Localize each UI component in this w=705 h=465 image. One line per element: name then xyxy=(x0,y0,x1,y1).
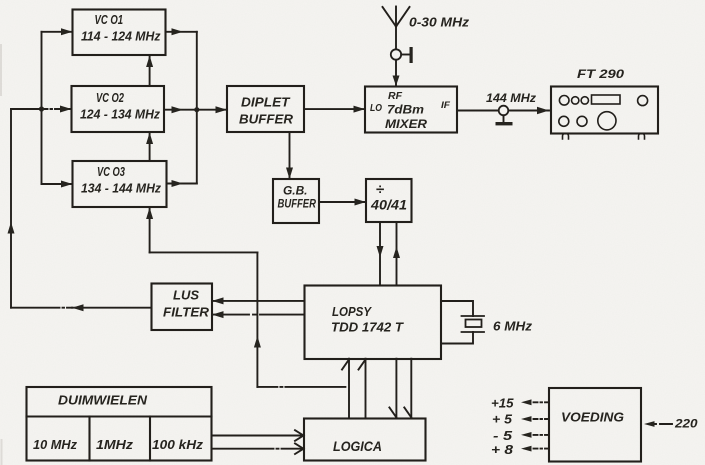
transceiver FT290 feet xyxy=(563,134,645,140)
wire LUS FILTER output to VCO bus xyxy=(11,304,152,311)
buffer DIPLET BUFFER label xyxy=(239,95,294,127)
wire G.B. BUFFER to divider xyxy=(319,199,366,206)
wire DIPLET BUFFER to G.B. BUFFER xyxy=(286,132,293,179)
wire antenna to mixer xyxy=(393,27,400,87)
wire VCO3 input xyxy=(42,181,73,188)
transceiver FT290 title xyxy=(577,67,624,81)
oscillator VCO3 box xyxy=(73,161,167,207)
antenna xyxy=(383,7,410,27)
svg-text:BUFFER: BUFFER xyxy=(239,112,294,127)
power -5 label xyxy=(493,429,513,443)
mixer U1 labels RF LO 7dBm IF MIXER xyxy=(370,91,450,131)
svg-text:÷: ÷ xyxy=(376,181,385,198)
crystal X1 wiring xyxy=(441,301,473,344)
wire DUIMWIELEN to LOGICA upper xyxy=(212,430,304,441)
power +5 output xyxy=(521,416,549,422)
wire VCO1 input xyxy=(42,28,73,35)
svg-text:FT 290: FT 290 xyxy=(577,67,624,81)
power +15 label xyxy=(491,397,515,411)
wire mixer IF to FT290 xyxy=(457,107,549,114)
power supply VOEDING box xyxy=(549,388,641,462)
svg-text:134 - 144 MHz: 134 - 144 MHz xyxy=(81,181,161,196)
svg-text:RF: RF xyxy=(388,91,403,102)
wire VCO1 output xyxy=(166,28,197,35)
svg-text:VC O3: VC O3 xyxy=(97,165,125,179)
power +8 label xyxy=(491,443,513,457)
power +15 output xyxy=(521,399,549,405)
svg-text:G.B.: G.B. xyxy=(283,184,308,198)
svg-text:10 MHz: 10 MHz xyxy=(33,437,77,452)
svg-text:6 MHz: 6 MHz xyxy=(493,320,533,334)
wire VCO3 output xyxy=(167,180,197,187)
antenna label 0-30 MHz xyxy=(409,15,470,30)
thumbwheel DUIMWIELEN labels xyxy=(33,393,204,453)
svg-text:MIXER: MIXER xyxy=(385,119,428,131)
power supply VOEDING label xyxy=(561,410,624,425)
wire band select VCO3 to VCO2 xyxy=(146,133,153,162)
scan edge artifact left xyxy=(0,45,3,464)
logic LOGICA box xyxy=(304,419,426,461)
oscillator VCO2 label xyxy=(80,91,160,122)
connector J2 test point on IF wire xyxy=(496,106,513,126)
divider 40/41 label xyxy=(370,181,407,213)
oscillator VCO3 label xyxy=(81,165,161,196)
node junction at control bus xyxy=(39,106,44,111)
svg-text:VC O1: VC O1 xyxy=(95,13,124,27)
filter LUS FILTER label xyxy=(163,289,209,320)
svg-text:VC O2: VC O2 xyxy=(96,91,124,105)
logic LOGICA label xyxy=(333,439,382,454)
buffer G.B. BUFFER label xyxy=(278,184,317,211)
transceiver FT290 box xyxy=(551,87,658,134)
wire band select into VCO3 xyxy=(146,208,153,253)
oscillator VCO2 box xyxy=(72,86,165,132)
connector J1 on antenna wire xyxy=(391,47,413,63)
power +5 label xyxy=(492,413,513,427)
oscillator VCO1 box xyxy=(73,10,166,56)
wire band select riser from LOGICA xyxy=(254,252,261,387)
thumbwheel DUIMWIELEN box xyxy=(27,387,212,461)
svg-text:100 kHz: 100 kHz xyxy=(152,437,204,452)
mixer U1 box xyxy=(365,87,457,133)
svg-text:- 5: - 5 xyxy=(493,429,513,443)
wire band select from LOGICA line dash-dot xyxy=(257,386,349,388)
buffer G.B. BUFFER box xyxy=(273,179,319,223)
synthesizer LOPSY TDD1742T box xyxy=(305,286,442,360)
svg-text:LO: LO xyxy=(370,102,382,114)
svg-text:1MHz: 1MHz xyxy=(96,437,134,452)
crystal label 6 MHz xyxy=(493,320,533,334)
wire VCO control bus vertical xyxy=(41,32,43,184)
wire DUIMWIELEN to LOGICA lower dash-dot xyxy=(212,443,304,454)
buffer DIPLET BUFFER box xyxy=(227,86,304,132)
wire band select VCO2 to VCO1 xyxy=(146,56,153,87)
wire LOGICA to LOPSY line 1 xyxy=(342,359,349,419)
svg-text:+15: +15 xyxy=(491,397,515,411)
svg-text:IF: IF xyxy=(441,100,450,111)
svg-text:144 MHz: 144 MHz xyxy=(486,93,536,105)
wire collector to DIPLET BUFFER xyxy=(197,106,227,113)
svg-text:7dBm: 7dBm xyxy=(387,103,424,117)
synthesizer LOPSY TDD1742T label xyxy=(331,304,404,335)
divider 40/41 box xyxy=(366,179,412,222)
power 220 label xyxy=(674,417,698,431)
wire DIPLET BUFFER to mixer LO xyxy=(304,106,365,113)
wire control voltage riser left xyxy=(8,109,42,308)
svg-text:40/41: 40/41 xyxy=(370,198,407,213)
svg-text:+ 8: + 8 xyxy=(491,443,513,457)
wire LOPSY to divider up xyxy=(393,222,400,286)
svg-text:+ 5: + 5 xyxy=(492,413,513,427)
transceiver FT290 front panel knobs xyxy=(559,95,648,130)
wire LOPSY to LUS FILTER lower xyxy=(212,311,305,318)
label 144 MHz xyxy=(486,93,536,105)
crystal X1 symbol xyxy=(462,316,485,332)
svg-text:LOGICA: LOGICA xyxy=(333,439,382,454)
wire LOGICA to LOPSY line 2 xyxy=(359,359,366,419)
svg-text:0-30 MHz: 0-30 MHz xyxy=(409,15,470,30)
wire LOPSY to LOGICA line 4 xyxy=(404,359,411,419)
svg-text:FILTER: FILTER xyxy=(163,306,209,320)
oscillator VCO1 label xyxy=(81,13,161,44)
wire LOPSY to LOGICA line 3 xyxy=(389,359,396,419)
svg-text:BUFFER: BUFFER xyxy=(278,199,317,211)
node junction at collector xyxy=(194,107,199,112)
wire VCO2 output xyxy=(164,106,197,113)
filter LUS FILTER box xyxy=(152,284,213,331)
power +8 output xyxy=(521,446,549,452)
wire divider to LOPSY down xyxy=(377,222,384,286)
svg-text:124 - 134 MHz: 124 - 134 MHz xyxy=(80,107,160,122)
svg-text:LOPSY: LOPSY xyxy=(332,304,372,319)
svg-text:114 - 124 MHz: 114 - 124 MHz xyxy=(81,29,161,44)
wire VCO2 input dash-dot xyxy=(42,106,72,113)
wire LOPSY to LUS FILTER upper xyxy=(212,297,305,304)
svg-text:DUIMWIELEN: DUIMWIELEN xyxy=(58,393,148,408)
wire band select horizontal from logic riser xyxy=(150,251,258,253)
power 220V input xyxy=(644,421,672,427)
wire VCO output collector vertical xyxy=(196,32,198,184)
svg-text:220: 220 xyxy=(674,417,698,431)
svg-text:TDD 1742 T: TDD 1742 T xyxy=(331,320,404,335)
svg-text:DIPLET: DIPLET xyxy=(241,95,291,110)
svg-text:LUS: LUS xyxy=(173,289,200,303)
svg-text:VOEDING: VOEDING xyxy=(561,410,624,425)
power -5 output xyxy=(521,432,549,438)
